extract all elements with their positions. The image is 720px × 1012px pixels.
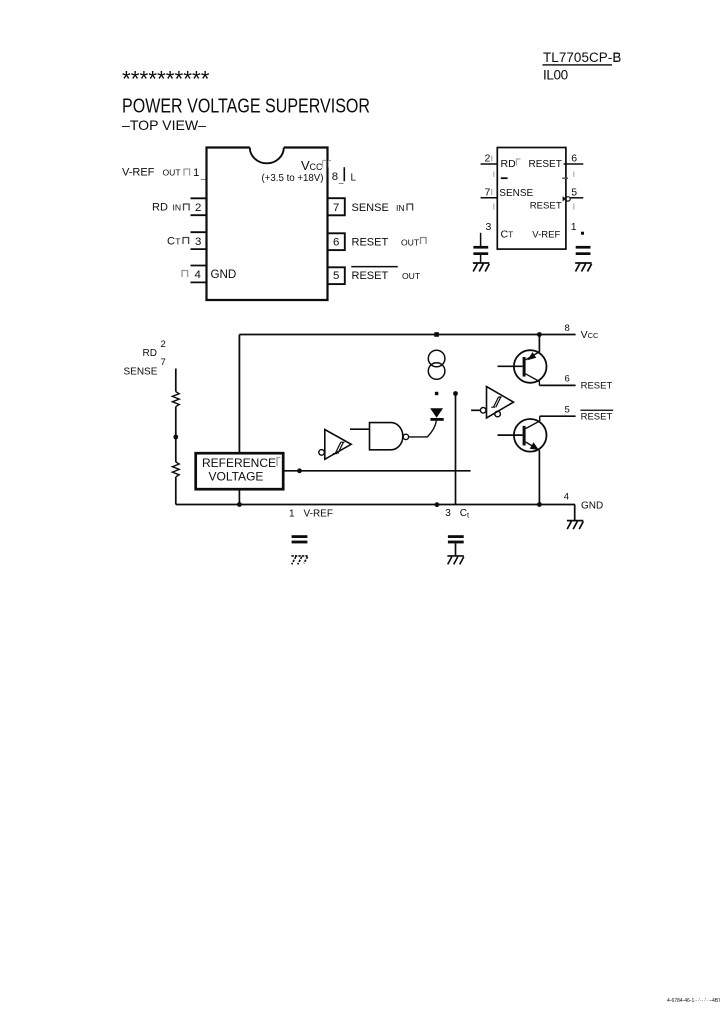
svg-text:RESET: RESET [529,159,562,170]
svg-text:RD: RD [152,202,168,214]
svg-text:REFERENCE: REFERENCE [202,456,276,470]
reference voltage box [196,453,284,489]
current source I1 (two circles) [428,350,445,379]
wire: U3 input stub [471,409,480,411]
artifact bracket after REFERENCE [277,458,281,467]
svg-text:3: 3 [195,236,201,248]
svg-text:T: T [508,231,513,240]
transistor Q2 collector diagonal [526,416,540,428]
svg-text:7: 7 [485,186,491,198]
comparator U3 lower bubble [495,411,501,417]
ground symbol below Ct cap [447,556,463,565]
wire: pin6 lead [564,163,584,165]
node junction dot ref box / ground rail [237,502,242,507]
wire: pin7 lead [481,197,498,199]
resistor R2 (lower divider) [172,462,179,477]
ground symbol below pin3 cap [473,263,489,272]
svg-text:POWER VOLTAGE SUPERVISOR: POWER VOLTAGE SUPERVISOR [122,95,370,117]
svg-text:OUT: OUT [402,271,421,281]
wire: Q2 emitter to ground rail [538,450,540,504]
pin 4 stub left [191,266,207,283]
svg-text:RESET: RESET [581,380,613,391]
node junction dot Vcc rail / current source [434,332,439,337]
node junction dot on reference output [297,468,302,473]
wire: Q1 emitter to Vcc rail [538,335,540,353]
wire: sense input vertical [175,369,177,392]
pin 2 stub left [191,198,207,215]
svg-text:2: 2 [485,153,491,165]
svg-text:V-REF: V-REF [304,508,333,519]
svg-text:(+3.5 to +18V): (+3.5 to +18V) [262,173,324,184]
capacitor on V-REF (plates only) [292,535,308,538]
hysteresis glyph inside U2 [333,442,345,453]
pin 3 stub left [191,232,207,249]
node junction dot Q2 emitter / ground rail [537,502,542,507]
svg-text:**********: ********** [122,67,210,92]
wire: Vcc top rail [239,334,575,336]
svg-text:3: 3 [445,508,451,519]
svg-text:IN: IN [396,203,405,213]
wire: cap to ground [480,255,482,263]
diode D1 (discharge) [431,409,442,417]
ground symbol at pin 4 [567,521,583,530]
capacitor C2 (pin1 external) plates [576,246,591,249]
svg-text:–TOP VIEW–: –TOP VIEW– [122,117,206,133]
underline under part number [543,64,613,65]
transistor Q1 collector diagonal [526,374,540,386]
transistor Q2 base bar [523,426,526,446]
svg-text:8: 8 [565,323,570,334]
IC block (application mini diagram) [497,148,566,250]
pin 6 box right [328,233,345,250]
artifact gray dashes right edge [573,172,575,210]
wire: Q1 base [498,365,523,367]
svg-text:E: E [613,51,621,65]
wire: NAND input [350,428,370,430]
svg-text:4: 4 [195,269,201,281]
node junction dot on divider [173,435,178,440]
svg-text:7: 7 [333,202,339,214]
svg-text:_: _ [200,171,206,180]
artifact tick after 2 [491,156,493,162]
svg-text:TL7705CP-B: TL7705CP-B [543,50,621,65]
wire: Q1 collector to RESET pin 6 [539,384,575,386]
wire: between resistors [175,407,177,462]
svg-text:5: 5 [571,186,577,198]
NAND gate G1 [370,423,403,450]
svg-text:L: L [351,173,357,184]
svg-text:V: V [581,329,588,341]
svg-text:VOLTAGE: VOLTAGE [209,469,264,483]
svg-text:6: 6 [571,153,577,165]
svg-text:1: 1 [289,508,295,519]
comparator U2 input bubble [319,450,325,456]
svg-text:V-REF: V-REF [532,229,560,240]
svg-text:SENSE: SENSE [352,202,389,214]
svg-text:GND: GND [581,501,603,512]
pin 4 label: 4 GND [182,271,188,278]
artifact bracket after RD [517,159,521,166]
transistor Q1 circle [514,350,547,383]
capacitor C1 (pin3 external) plates [473,246,488,249]
resistor R1 (upper divider) [172,392,179,407]
svg-text:8: 8 [332,171,338,183]
node junction dot on ground rail near Ct [435,502,440,507]
hysteresis glyph inside U3 [491,397,502,407]
svg-text:RESET: RESET [581,412,613,423]
wire: Q2 base [498,434,523,436]
comparator U3 triangle [487,387,514,419]
svg-text:SENSE: SENSE [499,188,533,199]
svg-text:RD: RD [501,158,517,170]
svg-text:CC: CC [588,331,599,340]
svg-text:6: 6 [333,236,339,248]
svg-text:5: 5 [565,405,570,416]
svg-text:OUT: OUT [401,237,420,247]
wire: pin3 vertical lead [480,233,482,247]
svg-text:RD: RD [143,348,157,359]
artifact gray dashes left edge [493,172,495,210]
svg-text:CC: CC [310,162,323,172]
wire: ground bottom rail [176,504,575,506]
wire: reference output rail [283,470,470,472]
artifact tick after 7 [491,189,493,195]
arrow marker at pin5 output [563,196,567,201]
svg-text:5: 5 [333,270,339,282]
wire: pin2 lead [481,163,498,165]
IC package U1 DIP-8 body [207,148,328,301]
wire: left vertical from Vcc rail to reference box [238,335,240,454]
wire: reference box bottom stub [238,489,240,504]
wire: pin5 lead [571,197,584,199]
transistor Q2 emitter diagonal with arrow outward [526,442,540,450]
wire: Ct cap to ground [455,543,457,556]
comparator U2 (hysteresis) triangle [325,430,351,460]
pin 8 tick bar [343,167,345,181]
node small dot below current source [435,392,438,395]
wire: diode to NAND output [409,421,437,437]
transistor Q2 circle [514,419,547,452]
svg-text:4: 4 [564,492,569,503]
comparator U3 input bubble [480,408,486,414]
svg-text:1: 1 [193,167,199,179]
pin 5 box right [328,267,345,284]
transistor Q1 base bar [523,357,526,377]
ground symbol below pin1 cap [575,263,591,272]
svg-text:RESET: RESET [352,270,389,282]
svg-text:2: 2 [161,339,166,350]
wire: Ct branch vertical [455,394,457,505]
ground symbol below V-REF cap [291,556,307,565]
svg-text:_: _ [338,175,344,184]
svg-text:GND: GND [211,268,237,281]
svg-text:OUT: OUT [163,168,182,178]
transistor Q1 emitter diagonal with arrow to base [526,352,540,360]
svg-text:4-6784-46-1···′···′· –4B7: 4-6784-46-1···′···′· –4B7 [667,998,720,1004]
svg-text:7: 7 [161,357,166,368]
pin 7 box right [328,198,345,215]
node junction dot Vcc rail / Q1 collector [537,332,542,337]
index notch on package top [250,148,284,164]
artifact tick crossing right edge [562,177,568,179]
svg-text:2: 2 [195,202,201,214]
svg-text:C: C [460,508,467,519]
svg-text:V-REF: V-REF [122,167,155,179]
wire: Q2 collector to RESET(bar) pin 5 [540,415,576,417]
svg-text:1: 1 [571,221,577,233]
svg-text:3: 3 [486,221,492,233]
node junction dot top of Ct branch [453,391,458,396]
wire: R2 to ground rail [175,477,177,505]
NAND output bubble [403,434,408,439]
node dot near pin 1 [581,232,584,235]
svg-text:T: T [175,236,181,246]
svg-text:C: C [167,235,175,247]
svg-text:IL00: IL00 [543,67,568,82]
svg-text:t: t [467,511,470,520]
svg-text:RESET: RESET [530,200,562,211]
svg-text:IN: IN [173,203,182,213]
svg-text:SENSE: SENSE [124,366,158,377]
capacitor Ct plates [448,535,464,538]
wire: GND stub down [574,505,576,521]
svg-text:6: 6 [565,374,570,385]
text: minus sign inside block [501,177,508,179]
svg-text:RESET: RESET [352,236,389,248]
